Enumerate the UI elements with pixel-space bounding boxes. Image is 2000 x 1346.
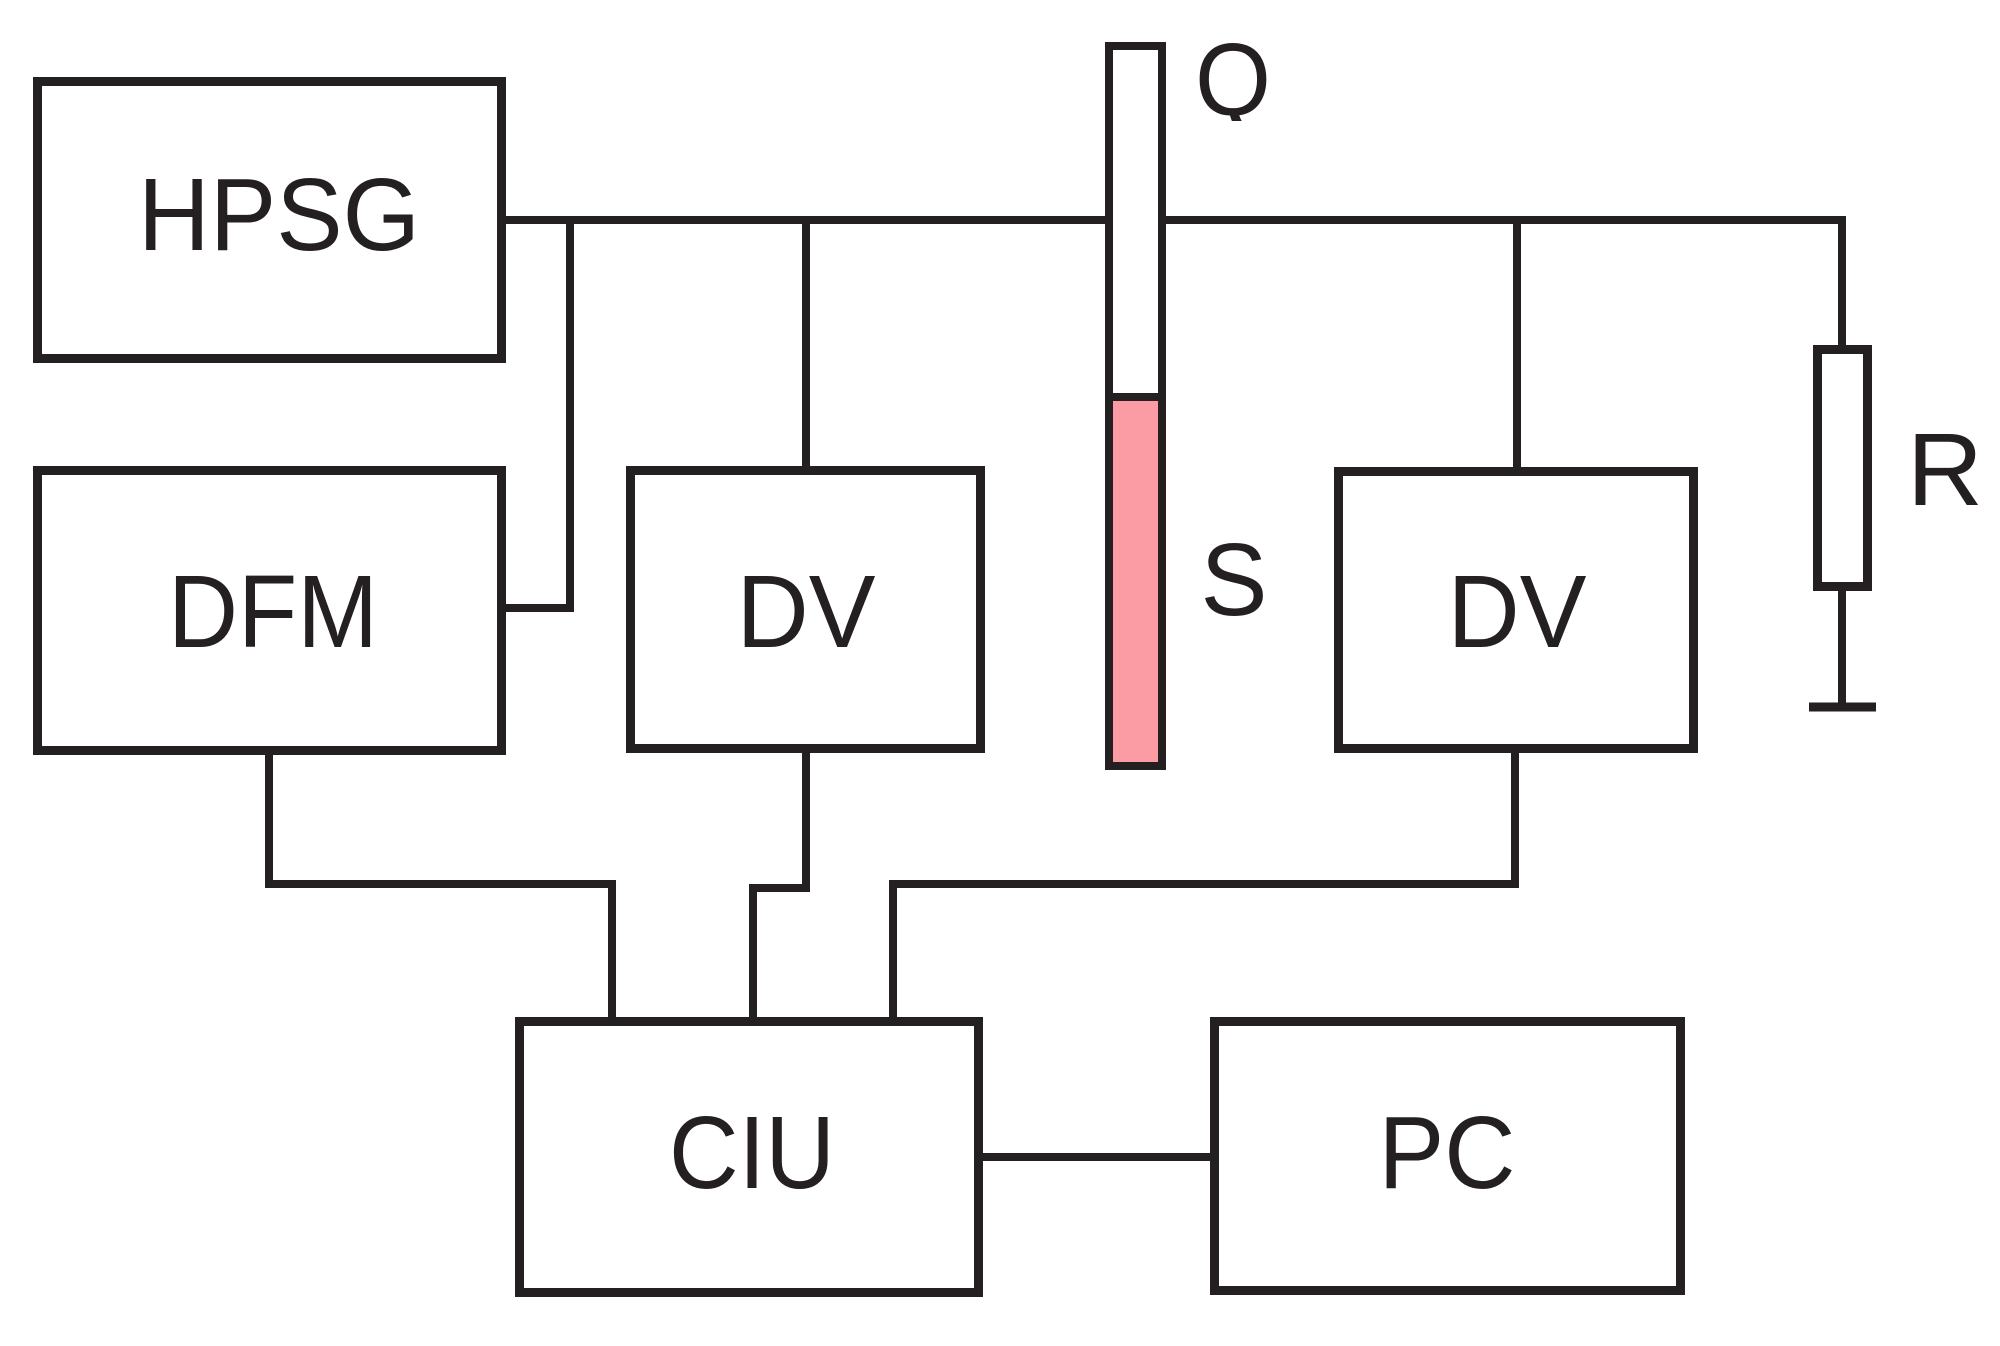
wire: HPSG bus drop to DFM right edge bbox=[506, 216, 570, 608]
svg-text:CIU: CIU bbox=[669, 1095, 835, 1210]
box PC bbox=[1215, 1022, 1681, 1291]
box DV middle bbox=[631, 471, 981, 749]
wire: DFM bottom to CIU top bbox=[269, 751, 612, 1021]
sample S (pink lower section) bbox=[1109, 397, 1162, 766]
wire: bus drop to middle DV top bbox=[802, 216, 810, 470]
svg-text:PC: PC bbox=[1379, 1095, 1516, 1210]
wire: bus from HPSG right edge to resistor corner bbox=[506, 220, 1842, 345]
box DV right bbox=[1339, 472, 1694, 749]
svg-text:DV: DV bbox=[737, 554, 876, 669]
box DFM bbox=[38, 471, 502, 751]
svg-text:DFM: DFM bbox=[168, 554, 378, 669]
svg-text:HPSG: HPSG bbox=[138, 157, 420, 272]
ground bbox=[1809, 703, 1876, 712]
wire: bus drop to right DV top bbox=[1513, 216, 1521, 470]
wire: right DV bottom to CIU top bbox=[893, 749, 1515, 1021]
resistor R body bbox=[1818, 350, 1868, 587]
wire: CIU right edge to PC left edge bbox=[983, 1153, 1210, 1161]
box HPSG bbox=[38, 82, 502, 359]
svg-text:R: R bbox=[1907, 412, 1983, 527]
svg-text:Q: Q bbox=[1195, 22, 1271, 137]
box CIU bbox=[520, 1022, 979, 1293]
svg-text:DV: DV bbox=[1448, 554, 1587, 669]
wire: middle DV bottom to CIU top bbox=[753, 749, 806, 1021]
quartz tube Q (white upper section) bbox=[1109, 46, 1162, 397]
wire: resistor bottom lead bbox=[1838, 587, 1846, 707]
svg-text:S: S bbox=[1201, 522, 1268, 637]
